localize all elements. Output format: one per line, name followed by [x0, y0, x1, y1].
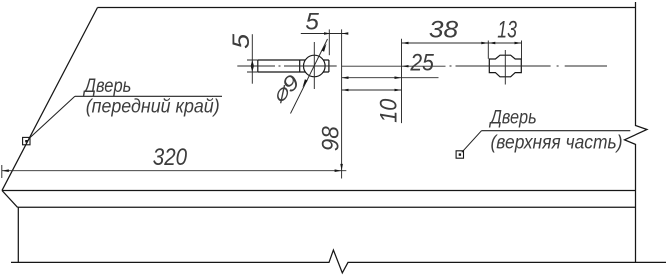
arrow 10 left — [342, 89, 349, 92]
arrow 5-top right — [342, 32, 349, 34]
svg-text:5: 5 — [305, 9, 319, 36]
centerline vertical of barrel — [504, 50, 506, 85]
wire left slanted edge — [2, 8, 98, 191]
svg-text:25: 25 — [410, 50, 435, 77]
centerline horizontal axis — [237, 65, 607, 67]
dimension 5 left: dim line — [251, 34, 253, 83]
arrow 38 left — [402, 42, 409, 45]
dimension line L2 — [342, 77, 439, 79]
dimension 10 line L3 — [342, 89, 402, 91]
arrow 320 right — [335, 169, 342, 172]
dimension 25 line — [342, 65, 446, 67]
arrow L2 right — [395, 76, 402, 79]
hinge barrel outline — [489, 55, 521, 77]
leader shelf — [482, 130, 631, 132]
dimension 5 left: extension lines — [247, 60, 258, 72]
svg-text:(передний край): (передний край) — [86, 96, 220, 118]
leader shelf — [75, 95, 222, 97]
svg-text:Дверь: Дверь — [489, 107, 537, 129]
wire bevel corner — [2, 191, 18, 208]
svg-text:Дверь: Дверь — [83, 75, 132, 97]
extension vertical reference line 1 — [341, 29, 343, 178]
arrow L2 left — [342, 76, 349, 79]
svg-text:320: 320 — [153, 144, 188, 171]
svg-text:38: 38 — [429, 17, 459, 44]
leader line — [29, 96, 75, 139]
svg-text:98: 98 — [318, 126, 345, 152]
arrow 5-left down — [251, 67, 254, 73]
dimension 320 extension line — [1, 165, 3, 178]
arrow 5-top left — [324, 32, 331, 34]
leader label door upper part — [462, 131, 631, 153]
wire top edge of door panel — [98, 7, 636, 9]
svg-text:(верхняя часть): (верхняя часть) — [491, 131, 623, 153]
arrow 98 bottom — [340, 164, 343, 171]
dimension 5 top: extension stub — [328, 29, 330, 55]
arrow 13 left — [488, 42, 495, 45]
svg-text:⌀9: ⌀9 — [267, 70, 305, 108]
wire horizontal edge B — [18, 206, 636, 208]
arrow d9 lower — [303, 79, 308, 87]
dimension 13 line — [488, 42, 521, 44]
arrow 38 right — [481, 42, 488, 45]
svg-text:13: 13 — [497, 17, 517, 44]
arrow 320 left — [2, 169, 9, 172]
centerline vertical of circle — [313, 42, 315, 89]
arrow d9 upper — [321, 44, 326, 52]
leader label door front edge — [29, 96, 223, 139]
wire bottom edge with break zigzag — [11, 250, 666, 273]
marker square front edge — [23, 137, 30, 144]
dimension 13 extension lines — [488, 41, 521, 59]
leader line — [462, 131, 482, 153]
arrow 5-left up — [251, 60, 254, 66]
marker square upper part — [456, 151, 463, 158]
dimension 38 line — [402, 42, 489, 44]
hole circle D9 — [304, 55, 326, 77]
dimension 5 top: dim line — [301, 33, 348, 35]
leader line diameter 9 — [291, 39, 328, 114]
svg-text:5: 5 — [228, 33, 255, 49]
slot outline — [258, 60, 329, 72]
wire horizontal edge A — [2, 190, 636, 192]
svg-text:10: 10 — [376, 98, 403, 123]
wire left bottom vertical — [17, 207, 19, 262]
wire right edge with break zigzag — [625, 2, 648, 262]
dimension 320 line — [2, 170, 347, 172]
arrow 25 right — [402, 65, 409, 67]
extension vertical reference line 2 — [401, 39, 403, 123]
arrow 10 right — [395, 89, 402, 92]
arrow 13 right — [515, 42, 522, 45]
